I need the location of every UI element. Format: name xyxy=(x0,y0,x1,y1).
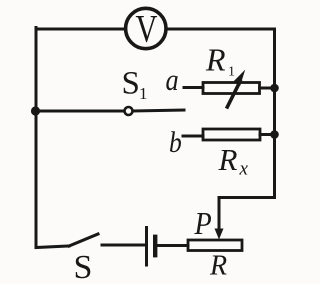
svg-text:1: 1 xyxy=(139,84,148,103)
wire bottom-left xyxy=(36,246,69,248)
node junction R1 right xyxy=(270,84,279,93)
svg-text:R: R xyxy=(205,42,226,78)
svg-text:V: V xyxy=(136,7,158,50)
battery short plate xyxy=(153,237,157,255)
wire top-right horizontal xyxy=(168,28,275,31)
switch S1 pivot circle xyxy=(125,107,133,115)
wire wiper P vertical xyxy=(218,198,221,231)
wiper P arrowhead xyxy=(215,229,224,240)
voltmeter U1 circle xyxy=(126,8,166,48)
wire top-left horizontal xyxy=(36,28,125,31)
svg-text:1: 1 xyxy=(228,65,235,80)
wire right vertical xyxy=(273,29,276,198)
battery long plate xyxy=(145,228,148,266)
switch S1 blade xyxy=(133,110,184,111)
svg-text:a: a xyxy=(166,63,179,97)
svg-text:S: S xyxy=(122,66,140,102)
resistor R1 body xyxy=(203,83,260,94)
wire battery to rheostat R xyxy=(158,244,188,247)
svg-text:x: x xyxy=(239,158,249,179)
wire S1 pole xyxy=(36,110,124,113)
svg-text:P: P xyxy=(194,206,212,242)
switch S blade xyxy=(69,234,98,246)
svg-text:S: S xyxy=(74,249,93,284)
svg-text:R: R xyxy=(218,142,238,177)
node junction left xyxy=(31,106,40,115)
svg-text:b: b xyxy=(169,126,182,159)
resistor Rx body xyxy=(203,129,260,140)
wire Rx right xyxy=(260,133,275,136)
wire switch S to battery xyxy=(102,244,144,247)
rheostat R body xyxy=(188,240,242,251)
wire R1 right xyxy=(260,87,275,90)
wire left vertical xyxy=(35,28,38,248)
rheostat R1 arrow xyxy=(225,79,243,109)
wire node b stub xyxy=(183,135,203,138)
wire node a stub xyxy=(184,86,203,89)
svg-text:R: R xyxy=(209,250,227,281)
wire wiper P horizontal xyxy=(219,196,275,199)
node junction Rx right xyxy=(270,130,279,139)
